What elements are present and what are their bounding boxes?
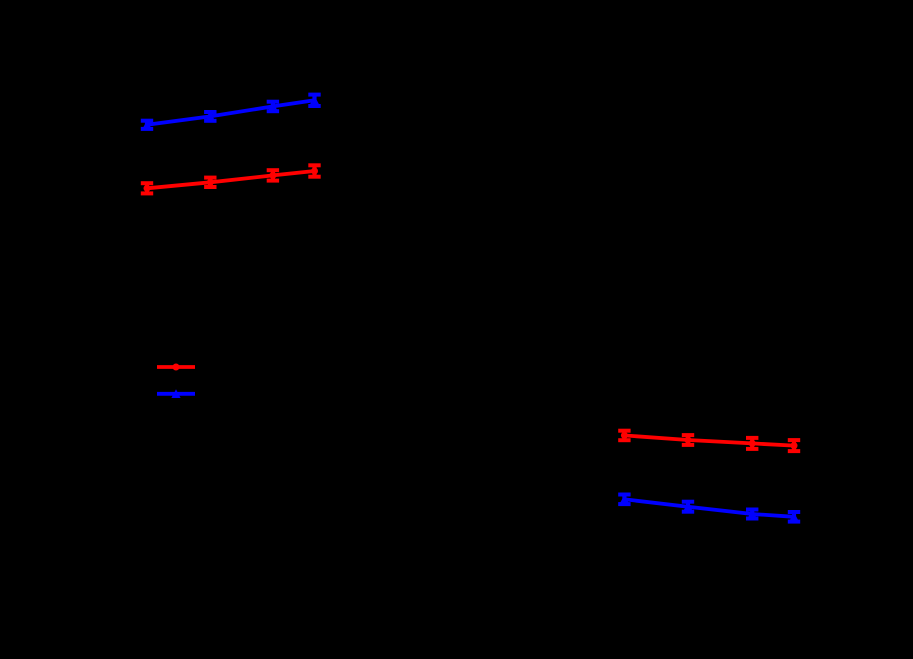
right subplot red circles (descending): error bar point 4: [788, 440, 800, 451]
left subplot red circles (ascending): marker point 2: [207, 179, 214, 186]
right subplot blue triangles (descending): error bar point 4: [788, 512, 800, 522]
left subplot blue triangles (ascending): marker point 1: [142, 120, 151, 129]
left subplot red circles (ascending): error bar point 3: [267, 170, 279, 180]
right subplot blue triangles (descending): marker point 4: [789, 512, 798, 521]
right subplot blue triangles (descending): connecting line: [624, 499, 794, 517]
left subplot blue triangles (ascending): marker point 2: [206, 112, 215, 121]
left subplot red circles (ascending): connecting line: [147, 171, 315, 188]
left subplot blue triangles (ascending): marker point 3: [268, 102, 277, 111]
left subplot blue triangles (ascending): connecting line: [147, 100, 315, 125]
right subplot red circles (descending): marker point 2: [685, 437, 692, 444]
left subplot blue triangles (ascending): marker point 4: [310, 96, 319, 105]
right subplot red circles (descending): error bar point 1: [618, 431, 630, 441]
right subplot red circles (descending): marker point 3: [749, 440, 756, 447]
left subplot red circles (ascending): marker point 3: [269, 172, 276, 179]
right subplot red circles (descending): error bar point 2: [682, 435, 694, 445]
right subplot blue triangles (descending): error bar point 2: [682, 502, 694, 512]
right subplot red circles (descending): connecting line: [624, 435, 794, 445]
left subplot blue triangles (ascending): error bar point 3: [267, 102, 279, 112]
legend: blue series sample line: [157, 389, 195, 398]
left subplot red circles (ascending): error bar point 4: [308, 165, 320, 176]
left subplot blue triangles (ascending): error bar point 1: [141, 121, 153, 129]
right subplot blue triangles (descending): marker point 1: [620, 495, 629, 504]
legend: red series sample line: [157, 364, 195, 371]
left subplot blue triangles (ascending): error bar point 4: [308, 95, 320, 106]
right subplot red circles (descending): error bar point 3: [746, 438, 758, 449]
right subplot blue triangles (descending): error bar point 3: [746, 510, 758, 519]
left subplot red circles (ascending): error bar point 1: [141, 183, 153, 193]
right subplot red circles (descending): marker point 4: [791, 442, 798, 449]
left subplot red circles (ascending): marker point 1: [144, 185, 151, 192]
right subplot blue triangles (descending): error bar point 1: [618, 495, 630, 505]
left subplot red circles (ascending): error bar point 2: [204, 178, 216, 187]
right subplot blue triangles (descending): marker point 3: [748, 510, 757, 519]
left subplot blue triangles (ascending): error bar point 2: [204, 112, 216, 121]
right subplot blue triangles (descending): marker point 2: [683, 502, 692, 511]
right subplot red circles (descending): marker point 1: [621, 432, 628, 439]
left subplot red circles (ascending): marker point 4: [311, 168, 318, 175]
